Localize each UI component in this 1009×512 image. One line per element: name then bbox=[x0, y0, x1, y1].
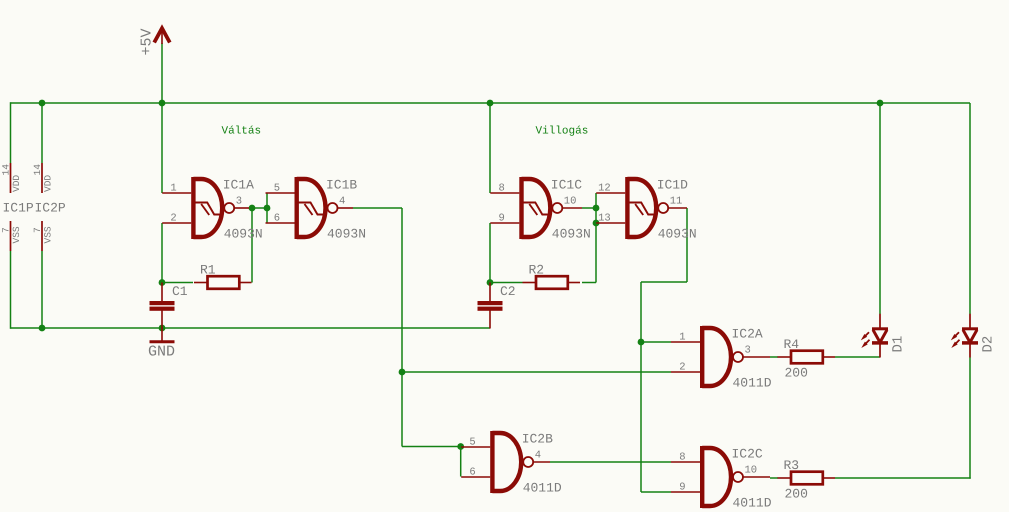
wire IC2A out to R4 bbox=[770, 356, 778, 358]
IC2C labels IC2C 4011D bbox=[732, 447, 772, 511]
wire R2 right link bbox=[582, 282, 596, 284]
svg-text:3: 3 bbox=[236, 196, 242, 208]
IC1B input pin stubs bbox=[266, 193, 295, 223]
+5V supply arrow bbox=[154, 28, 170, 44]
svg-text:14: 14 bbox=[1, 164, 12, 176]
wire IC1C out node bbox=[582, 207, 596, 209]
IC2C output pin stub bbox=[743, 476, 770, 478]
junction IC2A pin2 branch bbox=[399, 369, 406, 376]
IC2A pin numbers 1 2 3 bbox=[679, 332, 751, 374]
wire IC1A pin2 to C1 bbox=[161, 223, 163, 283]
wire VCC to IC1C pin8 bbox=[489, 103, 491, 193]
IC1P VSS pin labels bbox=[1, 226, 23, 243]
wire to IC2A pin2 bbox=[402, 371, 671, 373]
svg-text:2: 2 bbox=[679, 362, 685, 374]
svg-text:4011D: 4011D bbox=[733, 376, 772, 391]
svg-text:5: 5 bbox=[469, 437, 475, 449]
wire IC2P VDD drop bbox=[41, 103, 43, 163]
svg-text:14: 14 bbox=[32, 164, 43, 176]
svg-text:R1: R1 bbox=[200, 263, 216, 278]
junction C1/R1 node bbox=[159, 279, 166, 286]
IC2B input pin stubs bbox=[461, 447, 490, 477]
resistor R2 bbox=[523, 276, 581, 289]
svg-text:VSS: VSS bbox=[11, 226, 22, 243]
junction VCC/IC2P bbox=[39, 100, 46, 107]
LED D1 bbox=[861, 314, 888, 358]
svg-text:5: 5 bbox=[274, 183, 280, 195]
wire IC2B out to IC2C pin8 bbox=[550, 461, 671, 463]
wire IC1D out down bbox=[686, 208, 688, 282]
IC1P VSS pin bbox=[10, 221, 12, 251]
wire IC1P VDD drop bbox=[10, 102, 12, 163]
wire IC1P VSS drop bbox=[10, 251, 12, 329]
wire C1 to R1 bbox=[162, 282, 193, 284]
svg-text:VDD: VDD bbox=[11, 175, 22, 192]
svg-text:3: 3 bbox=[745, 345, 751, 357]
wire R4 to D1 cathode bbox=[835, 356, 880, 358]
svg-text:R3: R3 bbox=[784, 458, 800, 473]
svg-text:R2: R2 bbox=[529, 263, 545, 278]
svg-text:IC1A: IC1A bbox=[223, 178, 254, 193]
svg-text:9: 9 bbox=[498, 213, 504, 225]
svg-text:IC1B: IC1B bbox=[326, 178, 357, 193]
wire IC2P VSS drop bbox=[41, 251, 43, 328]
IC1C pin numbers 8 9 10 bbox=[498, 183, 576, 225]
junction IC1A out node B bbox=[264, 205, 271, 212]
svg-text:4093N: 4093N bbox=[552, 227, 591, 242]
IC2A output pin stub bbox=[743, 356, 770, 358]
ground symbol bbox=[150, 328, 175, 342]
svg-text:11: 11 bbox=[670, 196, 683, 208]
wire VCC to D1 anode bbox=[879, 103, 881, 314]
IC1D output pin stub bbox=[668, 207, 687, 209]
svg-text:4: 4 bbox=[535, 450, 541, 462]
junction IC1C out node A bbox=[593, 205, 600, 212]
svg-text:IC2B: IC2B bbox=[522, 432, 553, 447]
IC2B output pin stub bbox=[533, 461, 550, 463]
IC2A labels IC2A 4011D bbox=[732, 327, 772, 391]
svg-text:Váltás: Váltás bbox=[222, 126, 262, 138]
R3 label bbox=[784, 458, 808, 502]
IC1P VDD pin labels bbox=[1, 164, 23, 192]
svg-text:10: 10 bbox=[745, 465, 758, 477]
resistor R1 bbox=[194, 276, 252, 289]
svg-text:D1: D1 bbox=[891, 336, 907, 353]
IC1B pin numbers 5 6 4 bbox=[274, 183, 346, 225]
IC1C output pin stub bbox=[562, 207, 582, 209]
wire VCC corner to D2 anode bbox=[969, 103, 971, 314]
IC1D labels IC1D 4093N bbox=[657, 178, 697, 242]
resistor R4 bbox=[778, 351, 836, 364]
svg-text:2: 2 bbox=[170, 213, 176, 225]
wire IC1D out across bbox=[641, 281, 687, 283]
svg-text:7: 7 bbox=[1, 227, 12, 233]
IC1D input pin stubs bbox=[596, 193, 625, 223]
IC1A labels IC1A 4093N bbox=[223, 178, 263, 242]
svg-text:12: 12 bbox=[598, 183, 611, 195]
junction VCC/IC1C bbox=[487, 100, 494, 107]
junction VCC/D1 bbox=[877, 100, 884, 107]
svg-text:200: 200 bbox=[785, 366, 808, 381]
wire IC1B out run bbox=[353, 207, 402, 209]
IC1B labels IC1B 4093N bbox=[326, 178, 366, 242]
IC1D pin numbers 12 13 11 bbox=[598, 183, 682, 225]
wire IC1C pin9 to C2 bbox=[489, 223, 491, 283]
IC2P VSS pin bbox=[41, 221, 43, 251]
gate IC2A body bbox=[700, 326, 743, 388]
svg-text:1: 1 bbox=[679, 332, 685, 344]
wire C2 to R2 bbox=[490, 282, 523, 284]
resistor R3 bbox=[778, 472, 836, 485]
svg-text:4093N: 4093N bbox=[327, 227, 366, 242]
svg-text:4011D: 4011D bbox=[523, 481, 562, 496]
wire IC1D out main drop bbox=[640, 282, 642, 492]
junction C2/R2 node bbox=[487, 279, 494, 286]
wire IC1B input tie bbox=[266, 193, 268, 223]
R1 label bbox=[200, 263, 216, 278]
svg-text:13: 13 bbox=[598, 213, 611, 225]
IC2C pin numbers 8 9 10 bbox=[679, 452, 757, 494]
wire IC1A out node bbox=[249, 207, 267, 209]
svg-text:IC1C: IC1C bbox=[551, 178, 582, 193]
svg-text:6: 6 bbox=[469, 467, 475, 479]
IC2P VSS pin labels bbox=[32, 226, 54, 243]
IC1C labels IC1C 4093N bbox=[551, 178, 591, 242]
svg-text:10: 10 bbox=[564, 196, 577, 208]
R2 label bbox=[529, 263, 545, 278]
svg-text:Villogás: Villogás bbox=[536, 126, 589, 138]
wire GND bottom rail bbox=[11, 327, 491, 329]
R4 label bbox=[784, 337, 808, 381]
junction VCC/+5V bbox=[159, 100, 166, 107]
svg-text:C2: C2 bbox=[500, 284, 516, 299]
svg-text:IC1P: IC1P bbox=[3, 201, 34, 216]
gate IC2B body bbox=[490, 431, 533, 493]
IC2C input pin stubs bbox=[671, 462, 700, 492]
svg-text:200: 200 bbox=[785, 487, 808, 502]
IC2B labels IC2B 4011D bbox=[522, 432, 562, 496]
svg-text:C1: C1 bbox=[172, 284, 188, 299]
capacitor C2 bbox=[478, 283, 503, 329]
wire +5V stem bbox=[161, 43, 163, 103]
svg-text:IC2A: IC2A bbox=[732, 327, 763, 342]
svg-text:4093N: 4093N bbox=[658, 227, 697, 242]
svg-text:7: 7 bbox=[32, 227, 43, 233]
wire IC1B out down bbox=[401, 208, 403, 447]
gate IC1A body bbox=[191, 177, 234, 239]
svg-text:GND: GND bbox=[148, 344, 175, 361]
wire VCC to IC1A pin1 bbox=[161, 103, 163, 193]
svg-text:9: 9 bbox=[679, 482, 685, 494]
IC1B output pin stub bbox=[337, 207, 353, 209]
svg-text:1: 1 bbox=[170, 183, 176, 195]
IC1C input pin stubs bbox=[490, 193, 519, 223]
IC1A pin numbers 1 2 3 bbox=[170, 183, 242, 225]
gate IC1B body bbox=[295, 177, 338, 239]
wire IC2C out to R3 bbox=[770, 477, 778, 479]
wire to IC2C pin9 bbox=[641, 491, 671, 493]
IC2B pin numbers 5 6 4 bbox=[469, 437, 541, 479]
junction GND/C1 bbox=[159, 325, 166, 332]
wire D2 cathode down bbox=[969, 358, 971, 479]
svg-text:8: 8 bbox=[679, 452, 685, 464]
IC2P VDD pin labels bbox=[32, 164, 54, 192]
IC1A input pin stubs bbox=[162, 193, 191, 223]
svg-text:VDD: VDD bbox=[43, 175, 54, 192]
svg-text:4093N: 4093N bbox=[224, 227, 263, 242]
wire VCC top rail bbox=[11, 102, 971, 104]
wire to IC2B inputs bbox=[402, 446, 461, 448]
svg-text:+5V: +5V bbox=[139, 28, 156, 55]
IC2P VDD pin bbox=[41, 163, 43, 193]
svg-text:IC2C: IC2C bbox=[732, 447, 763, 462]
IC2A input pin stubs bbox=[671, 342, 700, 372]
gate IC1C body bbox=[519, 177, 562, 239]
svg-text:4: 4 bbox=[339, 196, 345, 208]
gate IC2C body bbox=[700, 446, 743, 508]
LED D2 bbox=[951, 314, 978, 358]
IC1P VDD pin bbox=[10, 163, 12, 193]
junction IC1A out node A bbox=[249, 205, 256, 212]
IC1A output pin stub bbox=[234, 207, 249, 209]
junction GND/IC2P bbox=[39, 325, 46, 332]
wire R3 to D2 bbox=[835, 477, 971, 479]
svg-text:D2: D2 bbox=[981, 336, 997, 353]
capacitor C1 bbox=[150, 283, 175, 329]
svg-text:IC1D: IC1D bbox=[657, 178, 688, 193]
junction IC2B input branch bbox=[457, 443, 464, 450]
junction IC2A pin1 branch bbox=[638, 339, 645, 346]
gate IC1D body bbox=[625, 177, 668, 239]
svg-text:6: 6 bbox=[274, 213, 280, 225]
svg-text:8: 8 bbox=[498, 183, 504, 195]
svg-text:R4: R4 bbox=[784, 337, 800, 352]
wire IC1A out to R1 right bbox=[251, 208, 253, 283]
junction IC1C out node B bbox=[593, 220, 600, 227]
wire to IC2A pin1 bbox=[641, 341, 671, 343]
svg-text:4011D: 4011D bbox=[733, 496, 772, 511]
wire IC1C out to R2 right bbox=[595, 193, 597, 283]
wire IC2B input tie bbox=[460, 447, 462, 477]
svg-text:IC2P: IC2P bbox=[35, 201, 66, 216]
svg-text:VSS: VSS bbox=[43, 226, 54, 243]
